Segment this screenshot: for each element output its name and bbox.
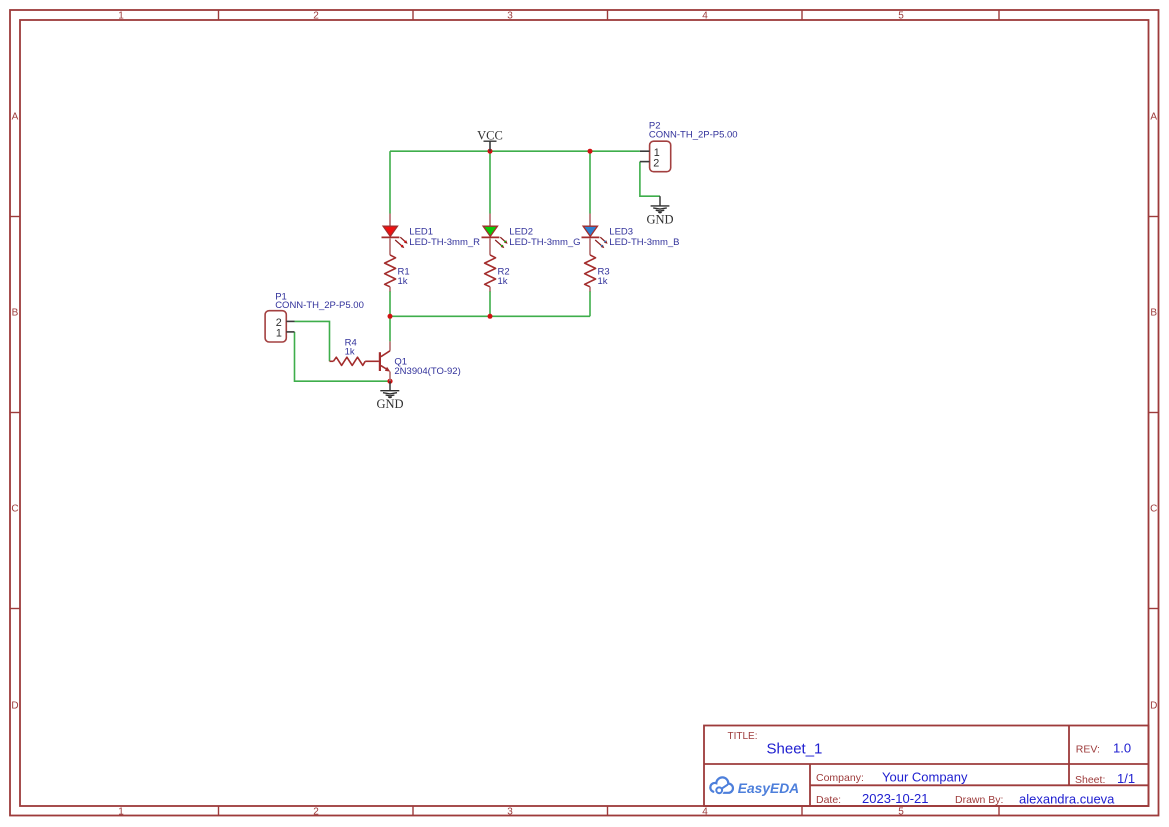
svg-text:B: B bbox=[12, 308, 19, 319]
wire LED1 branch top bbox=[389, 151, 391, 213]
svg-text:VCC: VCC bbox=[477, 128, 503, 142]
svg-text:2: 2 bbox=[313, 807, 319, 818]
svg-text:GND: GND bbox=[376, 397, 403, 411]
resistor R4 bbox=[330, 357, 379, 365]
svg-text:C: C bbox=[11, 504, 18, 515]
top ruler ticks bbox=[219, 10, 1000, 20]
junction dot top rail at LED2 bbox=[488, 149, 493, 154]
svg-text:alexandra.cueva: alexandra.cueva bbox=[1019, 792, 1115, 807]
bottom ruler ticks bbox=[219, 806, 1000, 816]
wire VCC top rail bbox=[390, 150, 640, 152]
svg-text:TITLE:: TITLE: bbox=[728, 731, 758, 742]
wire P1 pin2 to R4 bbox=[295, 321, 330, 361]
junction dot bottom rail at R1 bbox=[388, 314, 393, 319]
svg-text:LED-TH-3mm_B: LED-TH-3mm_B bbox=[609, 237, 679, 248]
svg-text:1k: 1k bbox=[345, 346, 355, 357]
svg-text:CONN-TH_2P-P5.00: CONN-TH_2P-P5.00 bbox=[275, 300, 364, 311]
svg-text:CONN-TH_2P-P5.00: CONN-TH_2P-P5.00 bbox=[649, 130, 738, 141]
wire P2 pin2 to GND bbox=[640, 162, 660, 197]
svg-text:Date:: Date: bbox=[816, 794, 841, 806]
svg-text:1/1: 1/1 bbox=[1117, 771, 1135, 786]
svg-text:3: 3 bbox=[507, 807, 513, 818]
svg-text:Drawn By:: Drawn By: bbox=[955, 794, 1003, 806]
wire LED2 branch top bbox=[489, 151, 491, 213]
netflag VCC bbox=[477, 128, 503, 151]
EasyEDA logo cloud bbox=[710, 777, 733, 795]
svg-text:Sheet:: Sheet: bbox=[1075, 774, 1105, 786]
title block frame bbox=[704, 726, 1149, 807]
svg-text:Company:: Company: bbox=[816, 772, 864, 784]
svg-text:EasyEDA: EasyEDA bbox=[738, 781, 799, 796]
junction dot top rail at LED3 bbox=[588, 149, 593, 154]
ruler column numbers top bbox=[118, 11, 904, 22]
svg-text:LED-TH-3mm_R: LED-TH-3mm_R bbox=[409, 237, 480, 248]
ruler column numbers bottom bbox=[118, 807, 904, 818]
svg-text:1.0: 1.0 bbox=[1113, 740, 1131, 755]
svg-text:Your Company: Your Company bbox=[882, 770, 968, 785]
svg-text:2023-10-21: 2023-10-21 bbox=[862, 791, 929, 806]
svg-text:A: A bbox=[12, 112, 19, 123]
junction dot emitter ground node bbox=[387, 379, 392, 384]
svg-text:GND: GND bbox=[646, 212, 673, 226]
left ruler ticks bbox=[10, 217, 20, 609]
wire bottom rail bbox=[390, 315, 590, 317]
svg-text:Sheet_1: Sheet_1 bbox=[767, 741, 823, 758]
wire R1 to bottom rail bbox=[389, 291, 391, 316]
LED LED1 bbox=[382, 214, 408, 255]
svg-text:5: 5 bbox=[898, 11, 904, 22]
svg-text:2: 2 bbox=[653, 157, 659, 169]
svg-text:1k: 1k bbox=[398, 276, 408, 287]
LED LED3 bbox=[582, 214, 608, 255]
ruler row letters right bbox=[1150, 112, 1157, 712]
resistor R2 bbox=[485, 255, 496, 292]
connector P2 bbox=[640, 141, 671, 172]
ruler row letters left bbox=[11, 112, 18, 712]
ground GND at P2 pin2 bbox=[651, 196, 670, 213]
svg-text:A: A bbox=[1150, 112, 1157, 123]
svg-text:4: 4 bbox=[702, 11, 708, 22]
svg-text:LED2: LED2 bbox=[509, 226, 533, 237]
resistor R1 bbox=[385, 255, 396, 292]
LED LED2 bbox=[482, 214, 508, 255]
svg-text:D: D bbox=[1150, 701, 1157, 712]
wire rail to Q1 collector bbox=[389, 316, 391, 341]
svg-text:LED1: LED1 bbox=[409, 226, 433, 237]
svg-text:B: B bbox=[1150, 308, 1157, 319]
svg-text:1: 1 bbox=[276, 327, 282, 339]
transistor Q1 bbox=[380, 341, 390, 381]
resistor R3 bbox=[585, 255, 596, 292]
svg-text:REV:: REV: bbox=[1076, 743, 1100, 755]
svg-text:C: C bbox=[1150, 504, 1157, 515]
svg-text:1: 1 bbox=[118, 11, 124, 22]
connector P1 bbox=[265, 311, 294, 342]
svg-text:1: 1 bbox=[118, 807, 124, 818]
svg-text:3: 3 bbox=[507, 11, 513, 22]
wire R3 to bottom rail bbox=[589, 291, 591, 316]
svg-text:LED-TH-3mm_G: LED-TH-3mm_G bbox=[509, 237, 580, 248]
svg-text:D: D bbox=[11, 701, 18, 712]
svg-text:2: 2 bbox=[313, 11, 319, 22]
svg-text:LED3: LED3 bbox=[609, 226, 633, 237]
svg-text:1k: 1k bbox=[598, 276, 608, 287]
svg-text:1k: 1k bbox=[498, 276, 508, 287]
wire R2 to bottom rail bbox=[489, 291, 491, 316]
wire LED3 branch top bbox=[589, 151, 591, 213]
wire P1 pin1 to emitter ground node bbox=[295, 332, 391, 381]
svg-text:5: 5 bbox=[898, 807, 904, 818]
svg-text:2N3904(TO-92): 2N3904(TO-92) bbox=[394, 366, 460, 377]
junction dot bottom rail at R2 bbox=[488, 314, 493, 319]
right ruler ticks bbox=[1149, 217, 1159, 609]
ground GND at Q1 emitter bbox=[380, 381, 399, 397]
svg-text:4: 4 bbox=[702, 807, 708, 818]
